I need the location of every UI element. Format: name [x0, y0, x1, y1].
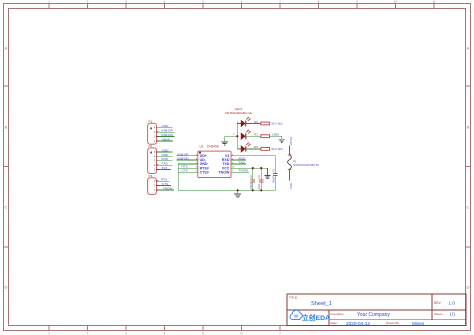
- svg-text:8: 8: [318, 0, 320, 4]
- svg-text:4: 4: [164, 332, 166, 335]
- svg-text:7: 7: [279, 0, 281, 4]
- svg-text:Sheet_1: Sheet_1: [311, 301, 332, 307]
- svg-text:1.50K: 1.50K: [271, 132, 279, 136]
- svg-text:GND: GND: [162, 124, 170, 128]
- svg-text:立创EDA: 立创EDA: [302, 313, 330, 322]
- svg-text:6: 6: [241, 332, 243, 335]
- svg-text:TNOW: TNOW: [163, 186, 173, 190]
- fuse F1: [288, 154, 292, 156]
- svg-text:VCC: VCC: [289, 182, 293, 189]
- svg-text:USB-DN: USB-DN: [177, 156, 189, 160]
- svg-text:1.0: 1.0: [449, 301, 456, 306]
- wire VBUS to F1: [289, 146, 291, 155]
- LED1 red led: [237, 117, 250, 127]
- svg-text:FM-B2020RGBA-HG: FM-B2020RGBA-HG: [225, 111, 253, 115]
- svg-text:REV:: REV:: [434, 301, 441, 305]
- svg-text:11: 11: [432, 0, 436, 4]
- svg-text:CTS: CTS: [182, 169, 188, 173]
- svg-text:100nF: 100nF: [249, 182, 253, 190]
- junction rail-gnd: [237, 189, 239, 191]
- U1 pin1 dot: [199, 152, 201, 154]
- connector P2 pin numbers: [154, 150, 156, 172]
- svg-text:Your Company: Your Company: [357, 312, 390, 318]
- wire USB-DN to U1: [177, 159, 198, 161]
- wire P1 pins: [158, 128, 174, 141]
- svg-text:3: 3: [125, 332, 127, 335]
- wire U1 GND pin to ground rail: [178, 164, 198, 190]
- U1 left pin numbers: [196, 154, 198, 172]
- wire U1 VCC to caps and ground: [231, 168, 267, 175]
- svg-text:D: D: [467, 285, 470, 290]
- title block frame: [287, 294, 466, 326]
- LED1 common bus wire: [236, 122, 238, 149]
- wire U1 V3 to C1: [231, 156, 275, 173]
- svg-text:510 1kΩ: 510 1kΩ: [271, 121, 283, 125]
- junction C2 bottom: [252, 189, 254, 191]
- svg-text:U1: U1: [200, 144, 204, 148]
- wire LED blue to R2: [246, 148, 261, 150]
- svg-text:3: 3: [125, 0, 127, 4]
- svg-text:Drawn By:: Drawn By:: [386, 321, 400, 325]
- svg-text:GND: GND: [162, 148, 170, 152]
- svg-text:A: A: [467, 46, 470, 51]
- svg-text:2020-04-12: 2020-04-12: [346, 321, 370, 326]
- svg-text:VBUS: VBUS: [162, 137, 170, 141]
- U1 left pin names: [200, 154, 209, 174]
- svg-text:TNOW: TNOW: [239, 169, 249, 173]
- svg-text:7: 7: [279, 332, 281, 335]
- svg-text:RXD: RXD: [162, 157, 169, 161]
- junction LED bus: [236, 135, 238, 137]
- svg-text:A: A: [5, 46, 8, 51]
- svg-text:R0: R0: [254, 120, 258, 124]
- wire U1 RXD: [231, 159, 246, 161]
- connector P3 pins: [157, 181, 159, 190]
- svg-text:Date:: Date:: [331, 321, 338, 325]
- wire U1 TNOW: [231, 171, 249, 173]
- svg-text:B: B: [467, 125, 470, 130]
- frame side ticks: [4, 86, 471, 247]
- U1 right pin names: [218, 154, 230, 174]
- connector P1 pins: [157, 128, 159, 141]
- ground symbol near caps: [264, 175, 270, 178]
- LED1 common wire to ground: [225, 136, 238, 142]
- svg-text:2: 2: [87, 332, 89, 335]
- svg-text:USB-DP: USB-DP: [161, 129, 173, 133]
- ground symbol R1: [279, 139, 285, 142]
- svg-text:1/1: 1/1: [450, 312, 456, 317]
- IC U1 body: [198, 151, 231, 177]
- svg-text:VBUS: VBUS: [289, 137, 293, 145]
- svg-text:3V3: 3V3: [162, 166, 168, 170]
- ground symbol below rail: [234, 190, 241, 197]
- connector P2 pins: [157, 152, 159, 170]
- capacitor C2: [252, 168, 254, 180]
- ground rail wire: [178, 189, 275, 191]
- svg-text:TNOW: TNOW: [218, 170, 230, 174]
- svg-text:R1: R1: [254, 133, 258, 137]
- svg-text:1: 1: [48, 332, 50, 335]
- capacitor C1: [273, 172, 278, 174]
- wire CTS to U1: [178, 171, 198, 173]
- svg-text:RTS: RTS: [161, 178, 167, 182]
- svg-text:CTS#: CTS#: [200, 170, 209, 174]
- svg-text:CTS: CTS: [162, 182, 168, 186]
- svg-text:Mises: Mises: [412, 321, 425, 326]
- wire U1 TXD: [231, 163, 246, 165]
- svg-text:C2: C2: [249, 175, 253, 179]
- svg-text:CH340E: CH340E: [207, 144, 219, 148]
- wire R1 to ground: [270, 136, 282, 139]
- connector P1 pin numbers: [154, 126, 156, 143]
- wire F1 to VCC: [289, 170, 291, 181]
- connector P3 pin numbers: [154, 179, 156, 192]
- wire LED green to R1: [246, 135, 261, 137]
- junction C2 top: [252, 167, 254, 169]
- svg-text:510 1kΩ: 510 1kΩ: [271, 147, 283, 151]
- wire P3 pins: [158, 181, 174, 190]
- svg-text:TITLE:: TITLE:: [289, 296, 298, 300]
- wire RTS to U1: [178, 167, 198, 169]
- svg-text:5: 5: [202, 0, 204, 4]
- svg-text:10uF: 10uF: [257, 183, 261, 189]
- svg-text:4: 4: [164, 0, 166, 4]
- svg-text:Company:: Company:: [331, 312, 345, 316]
- svg-text:5: 5: [202, 332, 204, 335]
- easyeda logo: [290, 310, 330, 322]
- svg-text:C: C: [5, 205, 8, 210]
- wire USB-DP to U1: [177, 155, 198, 157]
- frame top ticks: [49, 4, 434, 9]
- svg-text:100nF: 100nF: [271, 176, 275, 184]
- svg-text:GND: GND: [162, 153, 170, 157]
- LED1 green led: [241, 130, 251, 140]
- svg-text:USB-DN: USB-DN: [161, 133, 173, 137]
- svg-text:TXD: TXD: [162, 162, 169, 166]
- U1 right pin numbers: [232, 154, 235, 172]
- svg-text:SMD0603P050TF: SMD0603P050TF: [293, 163, 319, 167]
- svg-text:1: 1: [48, 0, 50, 4]
- frame bottom ticks: [49, 326, 280, 331]
- junction C3 bottom: [260, 189, 262, 191]
- ground symbol LED common: [222, 142, 228, 145]
- svg-text:Sheet:: Sheet:: [434, 312, 443, 316]
- connector P1 pin1 arrow: [150, 127, 152, 130]
- junction C3 top: [260, 167, 262, 169]
- svg-text:TXD: TXD: [239, 161, 246, 165]
- svg-text:9: 9: [356, 0, 358, 4]
- svg-text:C3: C3: [257, 175, 261, 179]
- svg-text:6: 6: [241, 0, 243, 4]
- svg-text:B: B: [5, 125, 8, 130]
- wire LED red to R0: [246, 123, 261, 125]
- wire P2 pins: [158, 152, 172, 170]
- svg-text:C: C: [467, 205, 470, 210]
- svg-text:2: 2: [87, 0, 89, 4]
- LED1 blue led: [237, 142, 250, 152]
- svg-text:10: 10: [394, 0, 398, 4]
- svg-text:C1: C1: [271, 168, 275, 172]
- svg-text:R2: R2: [254, 145, 258, 149]
- connector P2 pin1 arrow: [150, 151, 152, 154]
- svg-text:D: D: [5, 285, 8, 290]
- frame row letters: [5, 46, 470, 290]
- capacitor C3: [260, 168, 262, 180]
